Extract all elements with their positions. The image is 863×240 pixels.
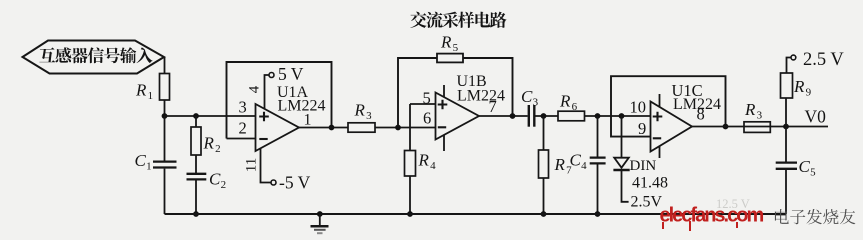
wire: R1 to node A: [164, 100, 166, 116]
svg-text:1: 1: [304, 112, 312, 129]
svg-text:R: R: [354, 101, 366, 120]
resistor R6: [558, 111, 585, 121]
wire: U1B out to C3: [479, 115, 528, 117]
svg-text:R: R: [554, 155, 566, 174]
svg-text:-5 V: -5 V: [279, 173, 311, 193]
wire: U1A pin 2 (feedback): [227, 138, 256, 140]
wire: R6 to U1C pin10: [585, 115, 651, 117]
node: U1C output: [723, 124, 729, 130]
svg-text:1: 1: [148, 90, 154, 102]
input callout 互感器信号输入: [23, 41, 165, 74]
wire: U1A feedback loop: [227, 62, 332, 139]
svg-text:C: C: [799, 157, 811, 176]
ground rail: [165, 213, 787, 215]
svg-text:4: 4: [581, 160, 587, 172]
wire+resistor R5 feedback: [398, 58, 437, 128]
wire: callout to R1: [164, 57, 166, 74]
svg-text:11: 11: [244, 158, 260, 172]
capacitor C5: [785, 127, 787, 162]
node: C4 tap: [595, 113, 601, 119]
svg-text:R: R: [418, 151, 430, 170]
resistor R2: [195, 116, 197, 127]
wire: U1C out to V0: [692, 126, 828, 128]
svg-text:2: 2: [239, 119, 247, 138]
op-amp U1A: [256, 104, 300, 151]
terminal +5V circle: [269, 73, 274, 78]
svg-text:5: 5: [423, 89, 431, 108]
capacitor C2: [187, 173, 207, 175]
svg-text:41.48: 41.48: [632, 175, 668, 192]
capacitor C1: [164, 116, 166, 161]
junction: R7 to rail: [541, 211, 547, 217]
svg-text:2.5 V: 2.5 V: [803, 50, 844, 70]
svg-text:1: 1: [146, 161, 152, 173]
svg-text:C: C: [209, 170, 221, 189]
node A (R1/C1 junction): [162, 113, 168, 119]
svg-text:6: 6: [572, 101, 578, 113]
junction: C4 to rail: [595, 211, 601, 217]
svg-text:R: R: [744, 100, 756, 119]
op-amp U1B: [436, 93, 480, 140]
svg-text:LM224: LM224: [278, 98, 326, 115]
watermark 电子发烧友: [775, 209, 789, 224]
svg-text:9: 9: [638, 119, 646, 138]
svg-text:4: 4: [430, 160, 436, 172]
svg-text:5: 5: [453, 42, 459, 54]
node: C3/R7 junction: [541, 113, 547, 119]
svg-text:R: R: [793, 77, 805, 96]
svg-text:2: 2: [215, 143, 221, 155]
wire: R4 to rail: [409, 176, 411, 214]
node B (R2 tap): [193, 113, 199, 119]
svg-text:R: R: [440, 33, 452, 52]
svg-text:2: 2: [221, 179, 227, 191]
svg-text:C: C: [521, 87, 533, 106]
capacitor C3: [528, 105, 530, 127]
wire: U1A out to R3: [299, 127, 348, 129]
op-amp U1C: [651, 102, 693, 152]
svg-text:7: 7: [489, 97, 497, 116]
svg-text:3: 3: [757, 110, 763, 122]
resistor R4: [405, 151, 416, 177]
node: U1B inverting input: [395, 125, 401, 131]
svg-text:4: 4: [247, 85, 263, 93]
svg-text:elecfans.com: elecfans.com: [660, 205, 764, 227]
svg-text:2.5V: 2.5V: [631, 194, 663, 211]
svg-text:10: 10: [630, 98, 647, 117]
node: U1B output: [510, 113, 516, 119]
title 交流采样电路: [410, 12, 426, 28]
ground symbol: [319, 214, 321, 226]
svg-text:R: R: [203, 134, 215, 153]
wire: U1B pin 5: [410, 103, 436, 105]
node: V0: [783, 124, 789, 130]
svg-text:9: 9: [806, 87, 812, 99]
capacitor C4: [597, 116, 599, 157]
wire: R3 to U1B pin6: [375, 127, 436, 129]
svg-text:3: 3: [366, 110, 372, 122]
wire: input line to U1A pin3: [165, 115, 256, 117]
junction: ground tap: [317, 211, 323, 217]
resistor R3 (second): [744, 122, 770, 133]
svg-text:V0: V0: [805, 107, 827, 127]
svg-text:3: 3: [533, 97, 539, 109]
wire: U1A pin 11 to -5V: [261, 148, 271, 182]
junction: C2 to ground rail: [193, 211, 199, 217]
resistor R3 (first): [348, 123, 375, 132]
junction: R4 to rail: [407, 211, 413, 217]
svg-text:6: 6: [423, 109, 431, 128]
svg-text:C: C: [570, 151, 582, 170]
terminal -5V circle: [271, 180, 276, 185]
svg-text:5: 5: [810, 167, 816, 179]
diode D1 DIN41.48: [621, 116, 623, 157]
terminal 2.5V circle: [791, 55, 796, 60]
svg-text:C: C: [135, 151, 147, 170]
resistor R1: [160, 74, 170, 101]
node: diode tap: [619, 113, 625, 119]
svg-text:DIN: DIN: [630, 158, 657, 174]
resistor R7: [543, 116, 545, 150]
svg-text:5 V: 5 V: [278, 64, 304, 84]
wire: U1C feedback loop: [611, 76, 726, 136]
svg-text:R: R: [135, 81, 147, 100]
svg-text:R: R: [559, 92, 571, 111]
svg-text:LM224: LM224: [457, 88, 505, 105]
svg-text:8: 8: [697, 105, 705, 124]
svg-text:3: 3: [239, 98, 247, 117]
wire: U1A pin 4 to +5V: [265, 75, 269, 109]
wire: R4 branch: [409, 104, 411, 151]
resistor R9 branch: [785, 98, 787, 127]
node: U1A output: [329, 125, 335, 131]
